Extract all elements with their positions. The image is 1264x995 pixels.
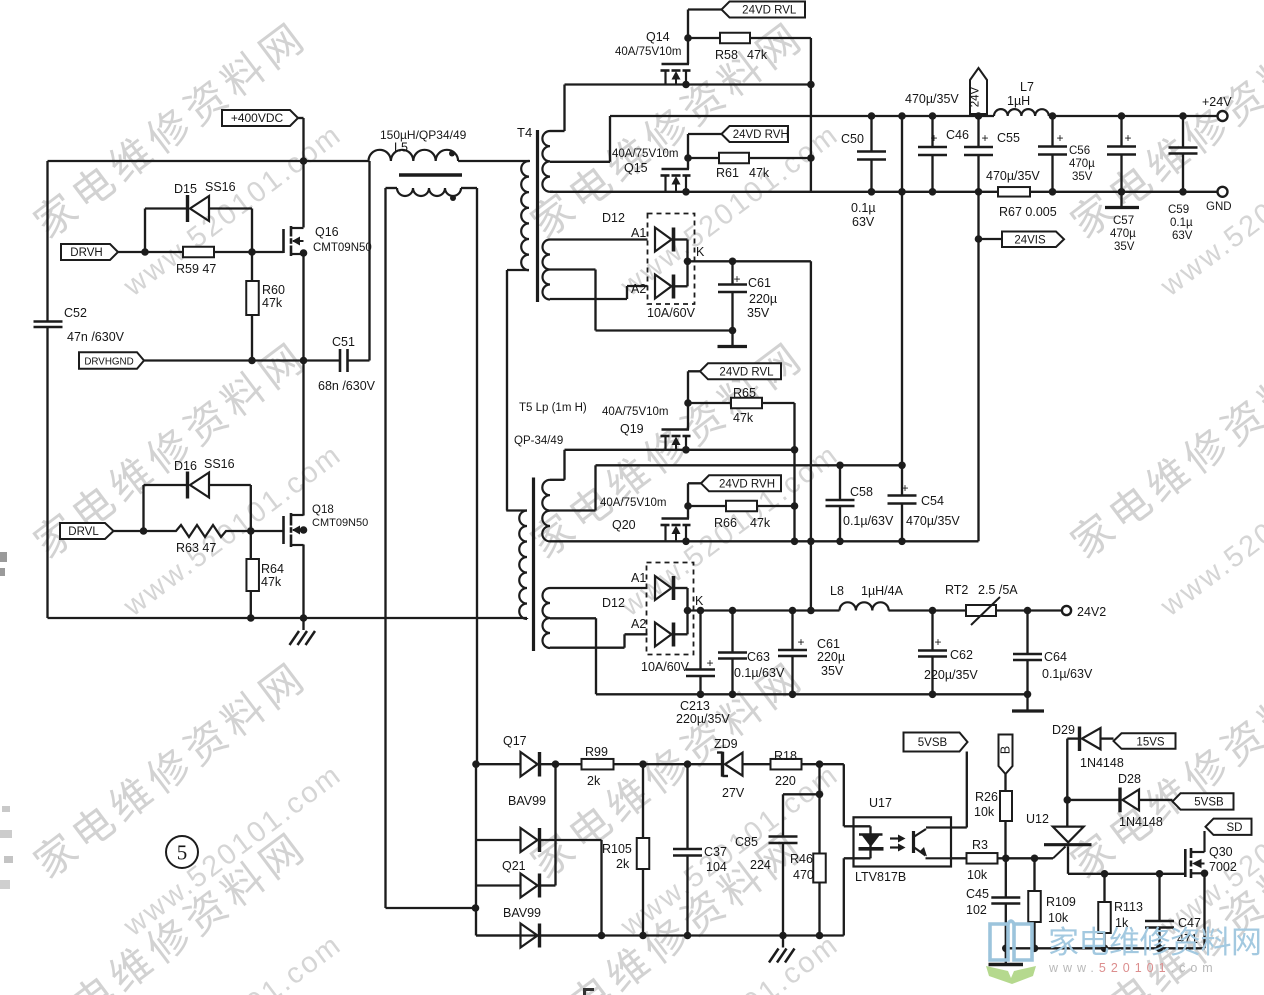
svg-text:C57: C57 [1113, 215, 1134, 227]
node Q15 gate junction [684, 154, 692, 162]
svg-text:U17: U17 [869, 796, 892, 810]
svg-text:24V2: 24V2 [1077, 605, 1106, 619]
svg-text:R66: R66 [714, 516, 737, 530]
transistor Q20 [600, 483, 691, 541]
svg-text:C54: C54 [921, 494, 944, 508]
node diode bridge left [472, 904, 480, 912]
svg-text:R63 47: R63 47 [176, 541, 216, 555]
inductor L8 [830, 584, 904, 611]
resistor R46 [790, 852, 826, 939]
svg-text:10A/60V: 10A/60V [641, 660, 690, 674]
svg-text:+: + [706, 656, 713, 670]
svg-text:220µ/35V: 220µ/35V [924, 668, 978, 682]
capacitor C62 [918, 607, 978, 698]
resistor R18 [771, 749, 844, 788]
svg-text:47k: 47k [749, 166, 770, 180]
svg-text:QP-34/49: QP-34/49 [514, 435, 563, 447]
wire R65 drop [791, 403, 799, 545]
svg-text:1N4148: 1N4148 [1080, 756, 1124, 770]
transformer T5 core [514, 402, 587, 651]
flag DRVHGND [79, 352, 339, 369]
transformer T4 secondary 1 [542, 85, 610, 192]
svg-text:www.520101.com: www.520101.com [1048, 961, 1218, 975]
svg-text:R113: R113 [1114, 900, 1143, 914]
capacitor C58 [826, 462, 894, 546]
wire opto emitter [951, 857, 967, 859]
ground lower [769, 932, 795, 963]
transformer T5 secondary 2 [543, 588, 648, 694]
svg-text:47k: 47k [262, 296, 283, 310]
wire bottom return [476, 932, 844, 940]
svg-text:220µ/35V: 220µ/35V [676, 712, 730, 726]
node R3 output [1002, 855, 1010, 863]
svg-text:0.1µ/63V: 0.1µ/63V [843, 514, 894, 528]
dual diode D12 (upper) [602, 211, 705, 320]
svg-text:35V: 35V [1072, 171, 1093, 183]
svg-text:RT2: RT2 [945, 583, 968, 597]
capacitor C37 [673, 764, 727, 939]
wire Q20 source line [550, 538, 979, 546]
wire Q17-Q21 link [554, 764, 556, 885]
flag 24VIS [979, 232, 1065, 248]
svg-text:+: + [797, 635, 804, 649]
resistor R65 [688, 386, 795, 425]
capacitor C47 [1145, 874, 1201, 952]
dual diode Q17 [476, 734, 602, 936]
svg-text:0.1µ/63V: 0.1µ/63V [1042, 667, 1093, 681]
svg-text:220µ: 220µ [749, 292, 777, 306]
svg-text:1µH/4A: 1µH/4A [861, 584, 904, 598]
svg-text:D12: D12 [602, 211, 625, 225]
svg-text:SS16: SS16 [204, 457, 235, 471]
transistor Q18 [284, 361, 369, 619]
capacitor C46 [905, 92, 969, 196]
svg-text:24VD RVL: 24VD RVL [719, 367, 774, 379]
svg-text:C51: C51 [332, 335, 355, 349]
transformer T4 secondary 2 [543, 240, 648, 331]
svg-text:C85: C85 [735, 835, 758, 849]
svg-text:+: + [981, 131, 988, 145]
svg-text:+24V: +24V [1202, 95, 1232, 109]
svg-text:C61: C61 [748, 276, 771, 290]
transformer T5 secondary 1 [542, 480, 550, 542]
svg-text:35V: 35V [1114, 241, 1135, 253]
svg-text:DRVL: DRVL [68, 526, 99, 538]
svg-text:R58: R58 [715, 48, 738, 62]
flag SD [1206, 819, 1252, 835]
svg-text:L7: L7 [1020, 80, 1034, 94]
node Q14 gate junction [684, 34, 692, 42]
node C47 top [1156, 870, 1164, 878]
terminal GND [1206, 187, 1232, 213]
terminal +24V [1202, 95, 1232, 121]
terminal 24V2 [1062, 605, 1106, 619]
svg-text:K: K [695, 594, 704, 608]
node Q15 drain junction [682, 188, 690, 196]
op-amp U17 optocoupler LTV817B [854, 796, 967, 884]
wire L5 right leg down [476, 188, 478, 764]
resistor R63 [144, 525, 284, 555]
svg-text:+: + [1124, 131, 1131, 145]
capacitor C52 [34, 306, 125, 344]
inductor L5 [369, 128, 531, 201]
svg-text:T5 Lp (1m H): T5 Lp (1m H) [519, 402, 587, 414]
svg-text:U12: U12 [1026, 812, 1049, 826]
transistor Q15 [612, 134, 691, 192]
svg-text:C61: C61 [817, 637, 840, 651]
wire L5 left leg down [384, 188, 386, 908]
wire Q19 source line [550, 450, 795, 480]
svg-text:470µ/35V: 470µ/35V [905, 92, 959, 106]
svg-text:Q21: Q21 [502, 859, 526, 873]
svg-text:D29: D29 [1052, 723, 1075, 737]
svg-text:Q20: Q20 [612, 518, 636, 532]
svg-text:27V: 27V [722, 786, 745, 800]
svg-text:C58: C58 [850, 485, 873, 499]
svg-text:C64: C64 [1044, 650, 1067, 664]
node Q17 cathode junction [552, 760, 560, 768]
svg-text:CMT09N50: CMT09N50 [313, 242, 372, 254]
svg-text:+: + [930, 131, 937, 145]
svg-text:+: + [934, 635, 941, 649]
svg-text:C62: C62 [950, 648, 973, 662]
capacitor C54 [888, 462, 961, 546]
svg-text:+400VDC: +400VDC [231, 111, 284, 125]
svg-text:63V: 63V [852, 215, 875, 229]
dual diode Q21 [476, 859, 602, 948]
svg-text:T4: T4 [517, 125, 532, 140]
svg-text:D28: D28 [1118, 772, 1141, 786]
inductor L7 [994, 80, 1049, 116]
svg-text:家电维修资料网: 家电维修资料网 [1063, 12, 1264, 247]
transistor Q19 [602, 371, 691, 450]
resistor R60 [246, 252, 285, 361]
flag 24V [970, 68, 988, 120]
wire opto cathode return [844, 858, 854, 935]
node R59-R60 junction [248, 248, 256, 256]
svg-text:470µ: 470µ [1110, 228, 1136, 240]
page number 5 [166, 836, 198, 868]
resistor R67 [998, 187, 1057, 219]
svg-text:2k: 2k [587, 774, 601, 788]
wire R46 branch [816, 764, 824, 853]
wire opto collector to 5VSB [966, 752, 968, 828]
svg-text:10A/60V: 10A/60V [647, 306, 696, 320]
svg-text:1N4148: 1N4148 [1119, 815, 1163, 829]
svg-text:Q19: Q19 [620, 422, 644, 436]
svg-text:Q14: Q14 [646, 30, 670, 44]
svg-text:47k: 47k [750, 516, 771, 530]
svg-text:68n /630V: 68n /630V [318, 379, 376, 393]
wire 24V feedback vertical [898, 112, 906, 464]
svg-text:R61: R61 [716, 166, 739, 180]
svg-text:10k: 10k [967, 868, 988, 882]
wire left rail lower [46, 327, 48, 618]
node Q19 drain junction [682, 446, 690, 454]
wire return rail [550, 191, 1217, 193]
svg-text:C59: C59 [1168, 204, 1189, 216]
capacitor C213 [676, 607, 730, 726]
resistor R64 [246, 531, 284, 618]
wire L5 leg to diodes [386, 907, 476, 909]
node D28 junction [1064, 796, 1072, 804]
resistor R113 [1098, 874, 1143, 952]
node ground junctions [247, 614, 307, 622]
node C37 top [684, 760, 692, 768]
capacitor C61 (upper) [718, 258, 778, 347]
node K lower [684, 607, 692, 615]
svg-text:R3: R3 [972, 838, 988, 852]
svg-text:24V: 24V [970, 86, 982, 107]
svg-text:CMT09N50: CMT09N50 [312, 517, 368, 529]
svg-text:40A/75V10m: 40A/75V10m [612, 148, 679, 160]
wire left rail upper [46, 161, 48, 321]
resistor R26 [974, 774, 1012, 858]
svg-text:C55: C55 [997, 131, 1020, 145]
dual diode D12 (lower) [602, 563, 704, 675]
svg-text:Q30: Q30 [1209, 845, 1233, 859]
resistor R109 [1028, 858, 1076, 952]
svg-text:C56: C56 [1069, 145, 1090, 157]
flag DRVL [60, 523, 144, 539]
svg-text:0.1µ: 0.1µ [1170, 217, 1193, 229]
flag 5VSB right [1173, 793, 1234, 809]
svg-text:0.1µ/63V: 0.1µ/63V [734, 666, 785, 680]
wire 24V2 return rail [596, 693, 1028, 695]
svg-text:7002: 7002 [1209, 860, 1237, 874]
svg-text:R67 0.005: R67 0.005 [999, 205, 1057, 219]
svg-text:A1: A1 [631, 226, 646, 240]
svg-text:L5: L5 [394, 141, 408, 155]
svg-text:5VSB: 5VSB [918, 737, 948, 749]
svg-text:R105: R105 [602, 842, 632, 856]
svg-text:A2: A2 [631, 282, 646, 296]
capacitor C57 [1105, 112, 1139, 253]
svg-text:47k: 47k [747, 48, 768, 62]
resistor R58 [688, 33, 811, 62]
svg-text:40A/75V10m: 40A/75V10m [615, 46, 682, 58]
resistor R59 [145, 247, 284, 276]
svg-text:R64: R64 [261, 562, 284, 576]
flag +400VDC [222, 110, 304, 126]
svg-text:2.5 /5A: 2.5 /5A [978, 583, 1018, 597]
wire top-left bus [48, 157, 369, 165]
capacitor C55 [964, 116, 1040, 196]
svg-text:40A/75V10m: 40A/75V10m [602, 406, 669, 418]
capacitor C51 [318, 335, 376, 393]
svg-text:102: 102 [966, 903, 987, 917]
wire 24VIS sense [975, 192, 983, 542]
svg-text:C45: C45 [966, 887, 989, 901]
node DRVHGND junctions [248, 357, 307, 365]
node Q20 gate junction [684, 502, 692, 510]
svg-text:63V: 63V [1172, 230, 1193, 242]
transformer T4 primary [507, 161, 529, 511]
svg-text:LTV817B: LTV817B [855, 870, 906, 884]
flag DRVH [61, 244, 145, 260]
svg-text:+: + [1056, 131, 1063, 145]
flag 24VD RVL mid [688, 363, 781, 379]
svg-text:K: K [696, 245, 705, 259]
svg-text:A2: A2 [631, 617, 646, 631]
svg-text:DRVH: DRVH [70, 247, 102, 259]
svg-text:D16: D16 [174, 459, 197, 473]
svg-text:+: + [733, 272, 740, 286]
wire ground rail [48, 617, 528, 619]
capacitor C56 [1038, 116, 1095, 196]
svg-text:470: 470 [793, 868, 814, 882]
capacitor C59 [1168, 112, 1198, 242]
node L7 output junction [1049, 112, 1057, 120]
node Q19 gate junction [684, 399, 692, 407]
transistor Q14 [615, 10, 691, 85]
transistor Q30 [1185, 831, 1237, 948]
svg-text:C63: C63 [747, 650, 770, 664]
node R109 top [1031, 855, 1039, 863]
svg-text:BAV99: BAV99 [503, 906, 541, 920]
wire R58-R61 vertical [807, 38, 815, 192]
svg-text:C46: C46 [946, 128, 969, 142]
svg-text:C52: C52 [64, 306, 87, 320]
capacitor C45 [966, 858, 1020, 964]
node R105 top [639, 760, 647, 768]
svg-text:C213: C213 [680, 699, 710, 713]
svg-text:B: B [999, 746, 1013, 754]
transformer T4 core [517, 125, 538, 302]
node Q14 drain junction [682, 81, 690, 89]
svg-text:35V: 35V [747, 306, 770, 320]
wire T4 aux return [596, 329, 733, 331]
svg-text:40A/75V10m: 40A/75V10m [600, 497, 667, 509]
svg-text:220µ: 220µ [817, 650, 845, 664]
svg-text:Q16: Q16 [315, 225, 339, 239]
svg-text:R59 47: R59 47 [176, 262, 216, 276]
svg-text:ZD9: ZD9 [714, 737, 738, 751]
svg-text:家电维修资料网: 家电维修资料网 [26, 12, 316, 247]
svg-text:C37: C37 [704, 845, 727, 859]
svg-text:R65: R65 [733, 386, 756, 400]
resistor R99 [582, 745, 722, 788]
node R63-R64 junction [247, 527, 255, 535]
node R113 top [1101, 870, 1109, 878]
svg-text:R99: R99 [585, 745, 608, 759]
wire C85 branch [783, 793, 820, 795]
svg-text:220: 220 [775, 774, 796, 788]
diode D15 [145, 180, 252, 252]
svg-text:家电维修资料网: 家电维修资料网 [1063, 332, 1264, 567]
svg-text:SS16: SS16 [205, 180, 236, 194]
wire +400VDC drop [302, 118, 304, 161]
diode D16 [144, 457, 251, 531]
svg-text:L8: L8 [830, 584, 844, 598]
svg-text:Q18: Q18 [312, 504, 334, 516]
svg-text:150µH/QP34/49: 150µH/QP34/49 [380, 128, 467, 142]
flag 24VD RVL [688, 2, 805, 18]
svg-text:GND: GND [1206, 201, 1232, 213]
svg-text:24VIS: 24VIS [1014, 234, 1046, 246]
svg-text:R60: R60 [262, 283, 285, 297]
wire 24V2 rail [688, 607, 1063, 615]
diode D29 [1052, 723, 1124, 770]
node K upper [684, 258, 692, 266]
svg-text:24VD RVL: 24VD RVL [742, 5, 797, 17]
resistor R66 [688, 501, 795, 530]
svg-text:47k: 47k [733, 411, 754, 425]
svg-text:470µ/35V: 470µ/35V [906, 514, 960, 528]
svg-text:1µH: 1µH [1007, 94, 1030, 108]
resistor R61 [688, 153, 811, 180]
svg-text:24VD RVH: 24VD RVH [719, 479, 775, 491]
svg-text:D15: D15 [174, 182, 197, 196]
svg-text:C50: C50 [841, 132, 864, 146]
svg-text:BAV99: BAV99 [508, 794, 546, 808]
svg-text:10k: 10k [974, 805, 995, 819]
flag 15VS [1114, 733, 1176, 749]
svg-text:470µ: 470µ [1069, 158, 1095, 170]
node R18 output [816, 760, 824, 768]
ground [290, 618, 316, 645]
ground C45 [989, 963, 1024, 966]
svg-text:D12: D12 [602, 596, 625, 610]
svg-text:15VS: 15VS [1136, 736, 1164, 748]
regulator U12 [1026, 800, 1092, 874]
svg-text:A1: A1 [631, 571, 646, 585]
wire Q17 anode riser [472, 760, 480, 935]
capacitor C64 [1012, 607, 1093, 711]
svg-text:DRVHGND: DRVHGND [84, 357, 133, 368]
thermistor RT2 [945, 583, 1018, 625]
svg-text:SD: SD [1227, 822, 1243, 834]
svg-text:0.1µ: 0.1µ [851, 201, 876, 215]
svg-text:224: 224 [750, 858, 771, 872]
resistor R105 [602, 764, 649, 939]
svg-text:35V: 35V [821, 664, 844, 678]
svg-text:+: + [901, 481, 908, 495]
svg-text:10k: 10k [1048, 911, 1069, 925]
svg-text:R18: R18 [774, 749, 797, 763]
wire Q30 gate line [1068, 873, 1185, 875]
flag 24VD RVH mid [688, 475, 781, 491]
svg-text:Q17: Q17 [503, 734, 527, 748]
svg-text:R109: R109 [1046, 895, 1076, 909]
svg-text:47k: 47k [261, 575, 282, 589]
diode D28 [1067, 772, 1172, 829]
wire K upper line [688, 260, 811, 262]
flag 5VSB [904, 733, 968, 752]
svg-text:5: 5 [177, 841, 188, 865]
svg-text:470µ/35V: 470µ/35V [986, 169, 1040, 183]
transistor Q16 [284, 161, 372, 361]
wire opto anode feed [844, 764, 854, 826]
wire K drop to 24V2 [810, 261, 812, 610]
svg-text:5VSB: 5VSB [1194, 797, 1224, 809]
capacitor C85 [735, 794, 798, 935]
wire C51 to L5 [348, 161, 370, 361]
capacitor C61 (lower) [778, 607, 845, 698]
wire +24V rail [610, 115, 1217, 117]
svg-text:104: 104 [706, 860, 727, 874]
svg-text:R46: R46 [790, 852, 813, 866]
flag B [999, 735, 1013, 775]
node DRVH junction [141, 248, 149, 256]
transformer T5 primary [506, 511, 527, 620]
capacitor C63 [718, 607, 785, 698]
svg-text:47n /630V: 47n /630V [67, 330, 125, 344]
wire Q14 source line [565, 83, 811, 85]
svg-text:Q15: Q15 [624, 161, 648, 175]
svg-text:R26: R26 [975, 790, 998, 804]
node DRVL junction [140, 527, 148, 535]
